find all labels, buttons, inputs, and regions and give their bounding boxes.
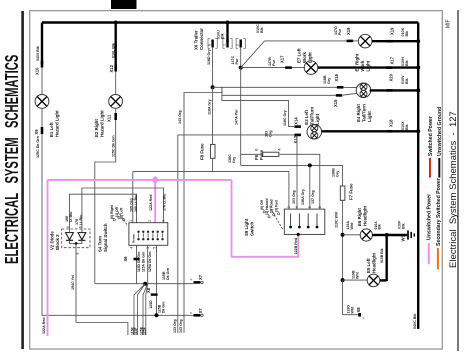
connector X13 pin: [294, 134, 301, 137]
svg-text:Unswitched Power: Unswitched Power: [427, 194, 433, 240]
wire 147D Pur to X19: [265, 40, 359, 42]
svg-text:115B: 115B: [162, 271, 166, 280]
ground bus top horizontal: [42, 21, 418, 23]
connector X6 harness pin: [134, 258, 140, 261]
wire feeder to F7: [342, 165, 344, 186]
svg-text:S4 Turn: S4 Turn: [98, 236, 103, 252]
svg-text:Headlight: Headlight: [363, 205, 368, 226]
svg-text:0400 Blk: 0400 Blk: [36, 45, 40, 61]
wire 010U Blk bus to X6 pin1: [226, 23, 228, 43]
node E5 feed junction: [341, 278, 345, 282]
wire diode common: [70, 240, 82, 243]
diode V2a: [66, 233, 74, 241]
svg-text:Lt Blu: Lt Blu: [69, 212, 73, 222]
svg-text:133 Org: 133 Org: [173, 319, 177, 333]
legend switched power sample: [429, 158, 431, 178]
svg-text:V2 Diode: V2 Diode: [50, 231, 55, 250]
svg-text:Hazard Light: Hazard Light: [100, 110, 105, 137]
svg-text:X19: X19: [346, 27, 351, 35]
connector X8 harness bar: [151, 293, 158, 295]
svg-text:ELECTRICAL SYSTEM SCHEMATI: ELECTRICAL SYSTEM SCHEMATICS: [2, 55, 23, 264]
svg-text:2: 2: [236, 44, 240, 46]
svg-text:X9: X9: [34, 129, 39, 135]
svg-text:143 Org: 143 Org: [179, 319, 183, 333]
svg-text:Work: Work: [360, 60, 365, 71]
svg-text:Electrical System Schematics: Electrical System Schematics - 127: [448, 111, 459, 268]
svg-text:Secondary Switched Power: Secondary Switched Power: [436, 178, 442, 246]
svg-text:X17: X17: [279, 55, 284, 63]
connector X7 lower: [194, 314, 201, 317]
lamp E2 Right Hazard Light: [109, 95, 123, 109]
svg-text:X16: X16: [334, 73, 339, 81]
wire X16 to E4: [343, 86, 356, 88]
svg-text:122A Red: 122A Red: [42, 318, 46, 334]
connector X15 pin: [336, 94, 342, 97]
svg-text:154C Yel: 154C Yel: [71, 275, 75, 290]
connector X10: [41, 61, 44, 68]
svg-text:122B Red: 122B Red: [294, 238, 298, 255]
wire 118B Gry to X16: [213, 86, 337, 88]
svg-text:X6 Trailer: X6 Trailer: [194, 30, 199, 50]
connector X11: [114, 113, 117, 120]
wire to E6: [343, 234, 361, 236]
node E3 ground junction: [416, 129, 420, 133]
svg-text:Blk: Blk: [405, 77, 409, 84]
svg-text:S9 Light: S9 Light: [244, 218, 249, 236]
node E6 feed junction: [341, 233, 345, 237]
svg-text:Switch: Switch: [250, 222, 255, 236]
svg-text:X15: X15: [333, 99, 338, 107]
wire stub fan: [134, 284, 145, 335]
svg-text:115C Dk Grn: 115C Dk Grn: [111, 135, 115, 157]
wire E1 to X9: [41, 108, 43, 127]
svg-text:Tail/Turn: Tail/Turn: [309, 106, 314, 124]
svg-text:6: 6: [208, 44, 212, 46]
svg-text:Blk: Blk: [401, 222, 405, 229]
svg-text:Light: Light: [307, 52, 312, 63]
connector X20 pin: [386, 89, 393, 92]
wire 154C Yel diode output: [76, 244, 128, 336]
wire X12 to E2: [115, 72, 117, 95]
svg-text:2: 2: [148, 220, 152, 222]
svg-text:MIF: MIF: [446, 19, 452, 28]
svg-text:F7 Fuse: F7 Fuse: [349, 183, 354, 200]
svg-text:Gry: Gry: [232, 157, 236, 163]
wire X10 to E1: [41, 68, 43, 95]
svg-text:X19: X19: [389, 27, 394, 35]
svg-text:Dk Grn: Dk Grn: [166, 268, 170, 280]
diode block V2 Diode Block 2: [62, 229, 90, 248]
svg-text:Wht: Wht: [350, 306, 354, 314]
svg-text:5: 5: [76, 253, 80, 255]
svg-text:Light: Light: [365, 60, 370, 71]
svg-text:Gry: Gry: [336, 171, 340, 177]
node diode output junction: [75, 242, 78, 245]
svg-text:5: 5: [152, 247, 156, 249]
wire 118D Gry X6 pin6 down: [212, 47, 214, 87]
svg-text:125D: 125D: [149, 300, 153, 309]
svg-text:Blk: Blk: [377, 224, 381, 229]
wire S4 pin4 down: [136, 245, 138, 283]
wire junction to W1: [387, 234, 407, 236]
svg-text:(1) Hazard: (1) Hazard: [265, 199, 269, 215]
svg-text:Signal Switch: Signal Switch: [103, 223, 108, 252]
wire E3 return to ground bus: [321, 130, 418, 132]
connector X18 pin: [386, 130, 393, 133]
svg-text:Gry: Gry: [327, 78, 331, 84]
svg-text:1: 1: [129, 220, 133, 222]
svg-text:Light: Light: [315, 113, 320, 124]
svg-text:X14: X14: [293, 117, 298, 125]
svg-text:Blk: Blk: [405, 30, 409, 37]
fuse F6: [263, 152, 279, 156]
lamp E3 Left Tail/Turn Light: [307, 125, 322, 140]
wire 133 Org to X13: [178, 134, 294, 136]
svg-text:176 Lt Blu: 176 Lt Blu: [162, 194, 166, 211]
svg-text:Wht: Wht: [350, 222, 354, 230]
connector X17 feed pin: [285, 66, 292, 69]
legend unswitched power sample: [428, 243, 430, 264]
svg-text:147A Pur: 147A Pur: [235, 109, 239, 125]
wire 122A Red to turn signal switch: [154, 180, 156, 223]
connector X14 pin: [294, 125, 301, 128]
svg-text:125A Dk Grn: 125A Dk Grn: [148, 251, 152, 272]
wire E2 to X11: [115, 108, 117, 113]
svg-text:010L Blk: 010L Blk: [112, 42, 116, 58]
diode V2b: [78, 233, 86, 241]
svg-text:105 Org: 105 Org: [129, 198, 133, 212]
svg-text:Pur: Pur: [235, 58, 239, 65]
svg-text:122A Red: 122A Red: [149, 195, 153, 211]
svg-text:119C Wht: 119C Wht: [334, 211, 338, 228]
wire 125C Dk Grn down to X7 row: [42, 134, 194, 315]
switch S4 lever: [115, 207, 127, 225]
svg-text:8: 8: [318, 206, 322, 208]
wire feeder 165 to F7: [241, 164, 343, 166]
svg-text:Retain: Retain: [131, 234, 135, 243]
svg-text:Blk: Blk: [405, 123, 409, 130]
node 147 junction: [239, 66, 243, 70]
svg-text:Block 2: Block 2: [55, 234, 60, 250]
wire 010C Blk diagonal: [241, 41, 265, 68]
wire F8 to long feeder: [212, 158, 214, 171]
wire E5 return: [380, 279, 387, 281]
wire 118A Gry to F8: [212, 87, 214, 144]
svg-text:115F: 115F: [134, 327, 138, 335]
connector X7 upper: [194, 281, 201, 284]
lamp E7 Left Work Light: [304, 61, 318, 75]
svg-text:E1 Left: E1 Left: [49, 122, 54, 137]
lamp E4 Right Tail/Turn Light: [356, 83, 371, 98]
wire 147C Pur X6 pin2 down: [240, 47, 242, 68]
wire S9 feed 3: [309, 165, 311, 209]
wire E8 return to ground bus: [372, 40, 418, 42]
fuse F8: [210, 144, 215, 158]
node row2 junction: [155, 313, 159, 317]
switch S9 position contact circles: [263, 211, 265, 213]
svg-text:X11: X11: [106, 114, 111, 122]
wire X15 to E4: [342, 93, 356, 95]
svg-text:Hazard Light: Hazard Light: [55, 110, 60, 137]
connector X9: [41, 127, 44, 134]
node E8 ground junction: [416, 39, 420, 43]
wire 122A Red unswitched power horizontal: [48, 179, 232, 181]
svg-text:E4 Right: E4 Right: [356, 104, 361, 122]
svg-text:040C Blk: 040C Blk: [413, 313, 417, 329]
wire junction row 1 to X7: [95, 283, 193, 285]
connector X17 return pin: [386, 66, 393, 69]
svg-text:(2) Road: (2) Road: [270, 199, 274, 213]
wire S4 pin5 down: [156, 245, 158, 315]
svg-text:X8: X8: [356, 307, 361, 313]
svg-text:E3 Left: E3 Left: [304, 110, 309, 125]
wire 115C Dk Grn jog: [95, 120, 116, 284]
svg-text:4: 4: [130, 247, 134, 249]
wire 133 Org vertical: [177, 135, 179, 333]
svg-text:X8: X8: [146, 287, 151, 293]
svg-text:E5 Left: E5 Left: [366, 258, 371, 273]
svg-text:(3) Fuel: (3) Fuel: [274, 200, 278, 212]
lamp E1 Left Hazard Light: [35, 95, 49, 109]
svg-text:Light: Light: [367, 111, 372, 122]
svg-text:115A Dk Grn: 115A Dk Grn: [141, 252, 145, 272]
svg-text:Pur: Pur: [272, 59, 276, 66]
wire ground bus to X10: [41, 23, 43, 65]
svg-text:143 Org: 143 Org: [178, 110, 182, 124]
svg-text:Unswitched Ground: Unswitched Ground: [437, 107, 443, 156]
svg-text:010B Blk: 010B Blk: [380, 248, 384, 263]
fuse F7: [340, 186, 345, 200]
wire S9 feed 2: [296, 135, 298, 209]
connector X16 pin: [337, 86, 344, 89]
connector X19 feed pin: [347, 40, 354, 43]
svg-text:(0) Right: (0) Right: [110, 204, 114, 219]
wire S4 pin3 down: [147, 245, 149, 283]
svg-text:X18: X18: [388, 119, 393, 127]
svg-text:137 Org: 137 Org: [311, 190, 315, 204]
legend unswitched ground sample: [438, 158, 440, 178]
switch S4 Turn Signal Switch box: [129, 223, 168, 246]
wire E7 return to ground bus: [318, 66, 418, 68]
wire 166 Lt Blu diode to switch: [70, 194, 137, 232]
wire ground bus to X12: [114, 23, 116, 66]
svg-text:Connector: Connector: [199, 28, 204, 50]
node row1 junction: [143, 282, 147, 286]
connector X19 return pin: [386, 40, 393, 43]
switch S9 contacts: [290, 214, 292, 226]
wire 118C Gry step: [222, 87, 294, 126]
svg-text:Dk Grn: Dk Grn: [162, 302, 166, 313]
svg-text:138A Gry: 138A Gry: [301, 189, 305, 205]
svg-text:5: 5: [308, 206, 312, 208]
svg-text:Blk: Blk: [405, 59, 409, 66]
node bus-X6 junction: [226, 21, 230, 25]
lamp E5 Left Headlight: [367, 274, 380, 287]
svg-text:X12: X12: [109, 64, 114, 72]
footer rule: [457, 10, 459, 351]
ground W1: [407, 230, 409, 239]
wire to fuse F6 pin B: [241, 153, 263, 155]
legend secondary switched power sample: [437, 248, 439, 269]
svg-text:Tail/Turn: Tail/Turn: [361, 104, 366, 122]
svg-text:118A Gry: 118A Gry: [208, 99, 212, 115]
wire 118 feeder to X15: [222, 94, 336, 96]
svg-text:Blk: Blk: [260, 26, 264, 33]
node E4 ground junction: [416, 88, 420, 92]
svg-text:Work: Work: [302, 52, 307, 63]
svg-text:103 Org: 103 Org: [292, 190, 296, 204]
svg-text:Org: Org: [268, 131, 272, 137]
wire 119D Wht to X8: [343, 280, 359, 315]
svg-text:125C Dk Grn: 125C Dk Grn: [36, 136, 40, 158]
svg-text:Wht: Wht: [356, 271, 360, 279]
wire E6 return: [372, 234, 386, 236]
left page title bar rule: [21, 11, 24, 349]
wire to E5: [343, 279, 368, 281]
svg-text:7: 7: [162, 220, 166, 222]
svg-text:Blk: Blk: [220, 32, 224, 39]
switch S4 position contact circles: [113, 219, 115, 221]
svg-text:X7: X7: [198, 308, 203, 314]
svg-text:F8 Fuse: F8 Fuse: [199, 143, 204, 160]
lamp E8 Right Work Light: [358, 34, 372, 48]
svg-text:166 Lt Blu: 166 Lt Blu: [134, 195, 138, 212]
svg-text:Fuse: Fuse: [259, 149, 264, 160]
svg-text:4: 4: [295, 206, 299, 208]
svg-text:Pur: Pur: [338, 28, 342, 35]
wire ground collector vertical: [386, 235, 388, 281]
wire 143 Org: [184, 87, 222, 333]
page edge index tab: [111, 0, 137, 9]
wire S9 feed 1: [288, 172, 290, 210]
svg-text:2: 2: [287, 206, 291, 208]
ground bus right vertical: [417, 23, 419, 329]
svg-text:Lt Blu: Lt Blu: [79, 215, 83, 225]
node 118 junction: [211, 85, 215, 89]
node pink junction diamond: [151, 176, 159, 184]
connector X8 headlight pin: [358, 313, 361, 317]
wire 176 Lt Blu diode to switch: [82, 188, 164, 233]
svg-text:X10: X10: [34, 67, 39, 75]
svg-text:Switched Power: Switched Power: [428, 116, 434, 156]
svg-text:X6: X6: [123, 256, 128, 262]
svg-text:(0) Off: (0) Off: [260, 199, 264, 210]
node bus-E2 junction: [114, 21, 118, 25]
svg-text:X17: X17: [389, 56, 394, 64]
svg-text:Headlight: Headlight: [371, 252, 376, 273]
svg-text:X7: X7: [198, 274, 203, 280]
connector X12: [114, 65, 117, 72]
node S9 feed junction: [308, 163, 312, 167]
wire 105 Org long feeder: [133, 172, 289, 223]
svg-text:125F: 125F: [142, 327, 146, 335]
wire fuse F6 pin A to S9: [279, 154, 320, 209]
wire 122A Red drop left: [47, 180, 49, 336]
wire E4 return to ground bus: [370, 89, 419, 91]
svg-text:W1: W1: [401, 235, 406, 242]
svg-text:E2 Right: E2 Right: [94, 119, 99, 137]
wire 147B Pur to X17: [241, 67, 305, 69]
switch S9 lever: [270, 207, 283, 230]
node headlight ground junction: [385, 233, 389, 237]
svg-text:X20: X20: [388, 73, 393, 81]
wire 122B Red to S9: [232, 180, 299, 257]
wire 119C Wht F7 down: [342, 200, 344, 280]
svg-text:E7 Left: E7 Left: [296, 48, 301, 63]
svg-text:118D Gry: 118D Gry: [207, 49, 211, 65]
lamp E6 Right Headlight: [360, 229, 372, 241]
wire 118C Gry from 147 node to X14: [240, 68, 242, 166]
svg-text:1: 1: [223, 44, 227, 46]
node E7 ground junction: [416, 66, 420, 70]
svg-text:118C Gry: 118C Gry: [283, 110, 287, 126]
svg-text:E6 Right: E6 Right: [357, 208, 362, 226]
switch S9 Light Switch box: [284, 209, 325, 234]
